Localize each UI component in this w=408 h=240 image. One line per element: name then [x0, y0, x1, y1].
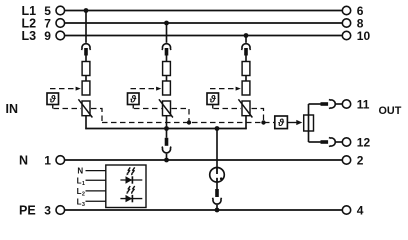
status indicator box: [106, 165, 146, 208]
wire socket to terminal 11: [335, 103, 342, 105]
wire: [245, 76, 247, 82]
actuation arrow (L2 path): [131, 87, 162, 91]
wire: [245, 56, 247, 62]
wire L1: [65, 10, 343, 12]
svg-text:L: L: [77, 176, 82, 185]
contact blade 11: [321, 102, 329, 106]
node dashed linkage junction 2: [187, 120, 191, 124]
terminal 3: [56, 206, 65, 215]
thermal monitor box (L1 path): [47, 93, 59, 105]
svg-text:IN: IN: [6, 102, 19, 116]
thermal monitor box (L2 path): [128, 93, 140, 105]
wire: [85, 76, 87, 82]
svg-text:12: 12: [357, 135, 371, 149]
svg-text:2: 2: [357, 153, 364, 167]
LED 2: [120, 195, 142, 202]
node on N: [164, 158, 169, 163]
contact drive rod: [308, 104, 310, 142]
svg-text:11: 11: [357, 97, 370, 111]
actuation arrow to contact drive: [287, 120, 302, 125]
terminal 6: [342, 6, 350, 14]
wire L2 branch drop: [166, 23, 168, 43]
varistor (L2 path): [159, 99, 173, 117]
terminal 12: [342, 138, 350, 146]
svg-text:L: L: [77, 197, 82, 206]
plug-in contact blade (L1 path): [84, 48, 88, 56]
wire PE: [65, 209, 343, 211]
dashed linkage bus: [102, 122, 275, 124]
dashed linkage right of varistor 1: [91, 109, 102, 123]
LED 1 flash arrows: [127, 167, 135, 175]
svg-text:3: 3: [44, 203, 51, 217]
svg-text:N: N: [77, 167, 83, 176]
contact drive: [304, 115, 314, 131]
wire L1 branch drop: [85, 11, 87, 43]
svg-text:ϑ: ϑ: [129, 95, 137, 106]
indicator input N stub: [86, 170, 106, 172]
plug-in contact socket (L1 path): [81, 44, 90, 50]
plug-in contact socket (L2 path): [162, 44, 171, 50]
wire GDT to blade: [216, 182, 218, 189]
actuation arrow (L1 path): [50, 87, 81, 91]
svg-text:3: 3: [82, 202, 85, 208]
thermal disconnector (L2 path): [163, 81, 171, 95]
svg-text:ϑ: ϑ: [277, 118, 285, 129]
svg-text:4: 4: [357, 203, 364, 217]
dashed link to varistor (L2 path): [134, 108, 162, 110]
wire bus to gas discharge tube: [216, 129, 218, 169]
wire L3 branch drop: [245, 36, 247, 43]
contact socket 11: [329, 99, 335, 108]
terminal 8: [342, 19, 350, 27]
indicator input L3 stub: [86, 200, 106, 202]
node on PE: [215, 208, 220, 213]
svg-text:1: 1: [44, 153, 51, 167]
terminal 9: [56, 31, 65, 40]
wire rod to contact 11: [309, 103, 321, 105]
terminal 4: [342, 206, 350, 214]
wire socket to N: [166, 154, 168, 160]
wire N: [65, 159, 343, 161]
svg-text:L3: L3: [22, 29, 37, 43]
node L1 tap: [84, 8, 89, 13]
svg-text:L: L: [77, 187, 82, 196]
indicator input L2 label: [77, 187, 85, 198]
dashed linkage right of varistor 3: [252, 109, 264, 123]
plug-in contact blade (L2 path): [165, 48, 169, 56]
varistor (L1 path): [78, 99, 92, 117]
plug-in contact socket (L3 path): [241, 44, 250, 50]
thermal disconnector (L3 path): [242, 81, 250, 95]
stub from thermal box: [212, 105, 214, 109]
node L3 tap: [244, 33, 249, 38]
dashed link to varistor (L1 path): [54, 108, 82, 110]
node L2 tap: [164, 21, 169, 26]
plug-in contact blade (GDT-PE): [215, 189, 219, 197]
stub from thermal box: [132, 105, 134, 109]
svg-text:9: 9: [44, 29, 51, 43]
contact socket 12: [329, 137, 335, 146]
indicator input L2 stub: [86, 190, 106, 192]
actuation arrow (L3 path): [210, 87, 241, 91]
wire: [166, 56, 168, 62]
terminal 11: [342, 100, 350, 108]
gas discharge tube N-PE: [210, 168, 225, 183]
indicator input L3 label: [77, 197, 85, 208]
terminal 10: [342, 31, 350, 39]
dashed link to varistor (L3 path): [214, 108, 242, 110]
svg-text:OUT: OUT: [379, 105, 402, 117]
svg-text:2: 2: [82, 192, 85, 198]
plug-in contact socket (bus-N): [162, 147, 171, 153]
thermal disconnector (L1 path): [82, 81, 90, 95]
wire rod to contact 12: [309, 141, 321, 143]
terminal 2: [342, 156, 350, 164]
node bus / N link: [164, 126, 169, 131]
dashed linkage right of varistor 2: [172, 109, 190, 123]
indicator input L1 label: [77, 176, 85, 187]
wire L3: [65, 35, 343, 37]
fuse element (L2 path): [163, 62, 171, 76]
wire L2: [65, 22, 343, 24]
contact blade 12: [321, 140, 329, 144]
svg-text:ϑ: ϑ: [209, 95, 217, 106]
wire varistor to bus (L2 path): [166, 116, 168, 130]
plug-in contact blade (bus-N): [165, 138, 169, 146]
terminal 1: [56, 156, 65, 165]
svg-text:PE: PE: [19, 204, 36, 218]
node dashed linkage junction 3: [261, 120, 265, 124]
wire varistor to bus (L3 path): [245, 116, 247, 130]
wire: [166, 76, 168, 82]
wire socket to terminal 12: [335, 141, 342, 143]
thermal monitor box (remote contact): [275, 116, 288, 129]
wire: [85, 56, 87, 62]
thermal monitor box (L3 path): [207, 93, 219, 105]
common varistor bus: [85, 128, 246, 130]
svg-text:1: 1: [82, 181, 85, 187]
LED 1: [120, 176, 142, 183]
wire socket to PE: [216, 205, 218, 210]
wire bus to N plug: [166, 129, 168, 138]
LED 2 flash arrows: [127, 186, 135, 194]
stub from thermal box: [52, 105, 54, 109]
fuse element (L1 path): [82, 62, 90, 76]
varistor (L3 path): [238, 99, 252, 117]
terminal 5: [56, 6, 65, 15]
svg-text:ϑ: ϑ: [49, 95, 57, 106]
wire varistor to bus (L1 path): [85, 116, 87, 130]
indicator input L1 stub: [86, 179, 106, 181]
node bus / GDT link: [215, 126, 220, 131]
fuse element (L3 path): [242, 62, 250, 76]
plug-in contact socket (GDT-PE): [212, 198, 221, 204]
svg-text:N: N: [19, 154, 28, 168]
terminal 7: [56, 19, 65, 28]
plug-in contact blade (L3 path): [244, 48, 248, 56]
svg-text:10: 10: [357, 29, 371, 43]
